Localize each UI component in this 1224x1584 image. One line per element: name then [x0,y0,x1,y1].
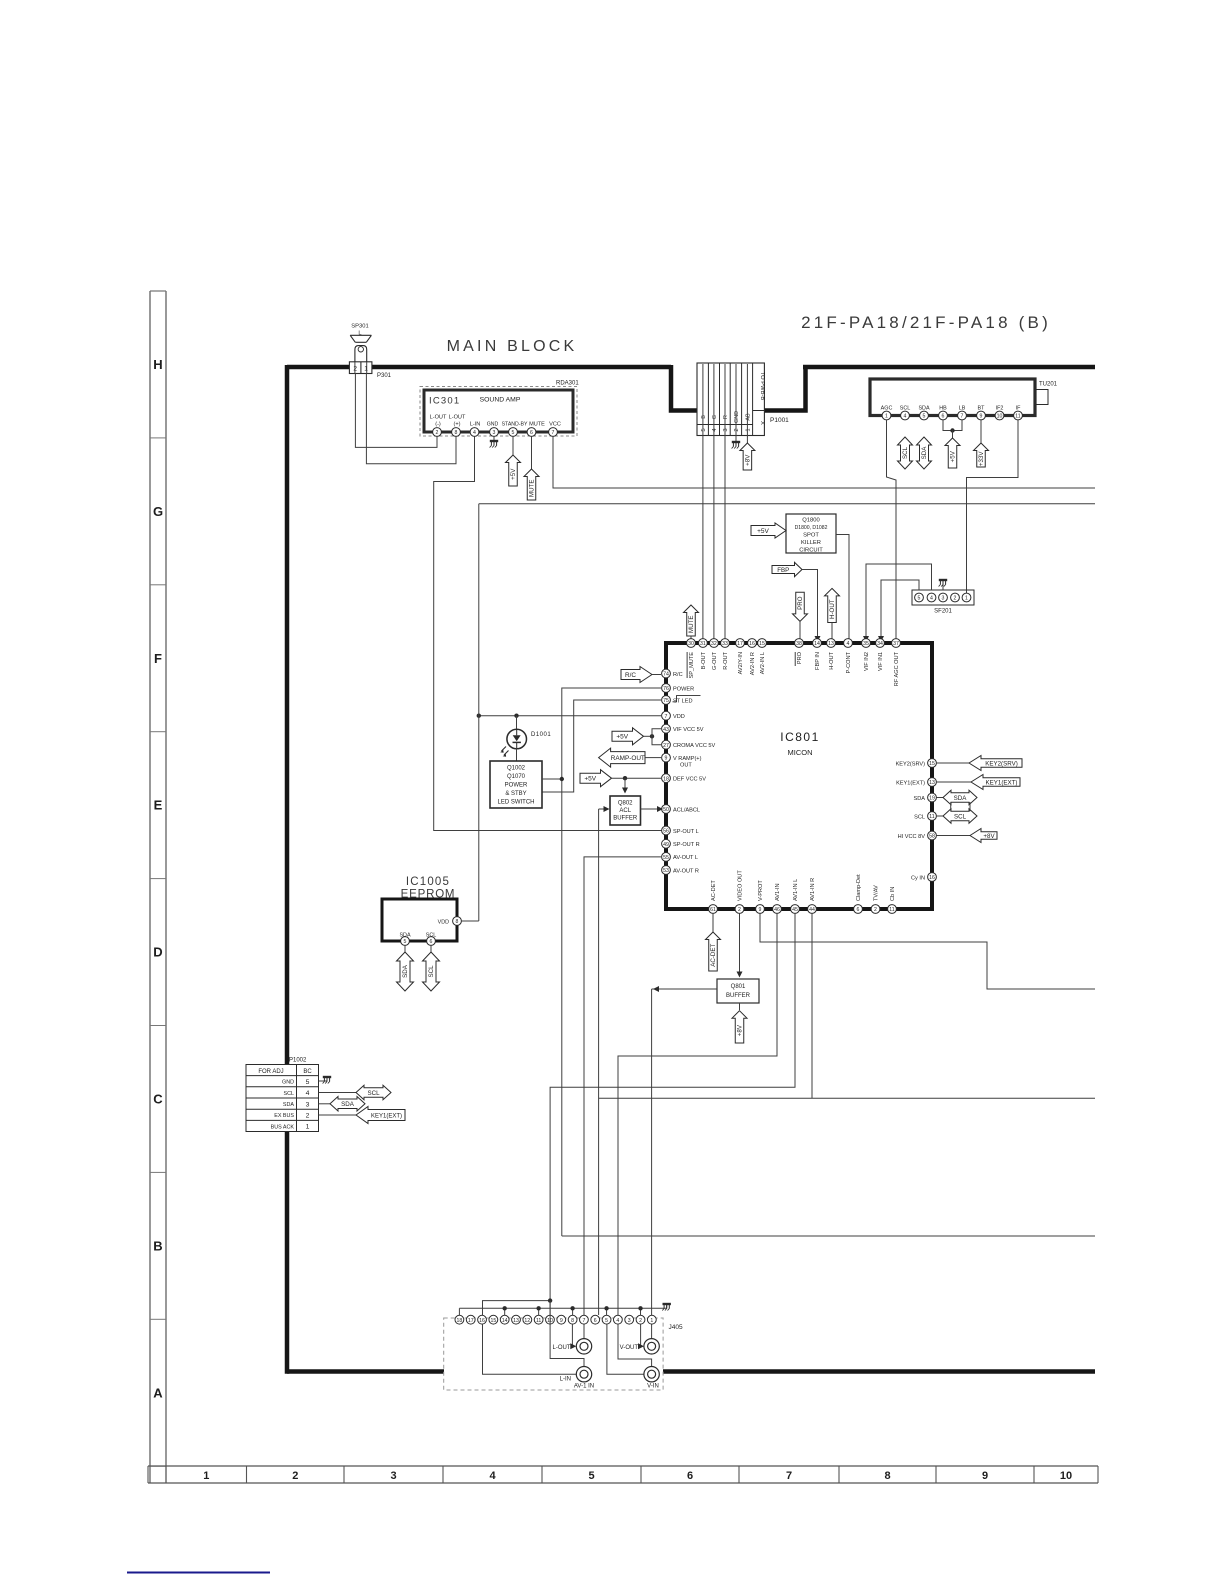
svg-text:SDA: SDA [913,796,925,802]
wire J405 pin5 to V-IN jack left [607,1324,644,1374]
svg-text:58: 58 [929,834,935,840]
wire TU201 IF to SF201 pin1 [967,420,1019,593]
svg-text:Clamp-Det: Clamp-Det [856,874,862,901]
wire J405 ground rail [459,1306,666,1315]
svg-text:SDA: SDA [921,446,928,460]
svg-text:KEY1(EXT): KEY1(EXT) [896,780,925,786]
svg-text:15: 15 [759,641,765,647]
svg-text:B: B [701,415,707,419]
connector P1001 [697,363,789,436]
net KEY1(EXT) arrow [936,775,1020,790]
svg-text:R-OUT: R-OUT [723,651,729,669]
svg-text:9: 9 [982,1470,988,1482]
wire IC801 VDD rail [477,714,661,718]
svg-text:Q802: Q802 [618,801,633,807]
svg-text:+8V: +8V [983,833,995,840]
svg-text:2: 2 [738,907,741,913]
svg-text:V-OUT: V-OUT [620,1345,639,1351]
svg-text:HI VCC 8V: HI VCC 8V [898,834,926,840]
svg-text:VCC: VCC [549,422,561,428]
svg-text:RF AGC OUT: RF AGC OUT [894,651,900,686]
svg-text:SCL: SCL [914,814,925,820]
svg-text:1: 1 [203,1470,209,1482]
svg-text:TV/AV: TV/AV [874,885,880,901]
svg-text:KEY1(EXT): KEY1(EXT) [371,1113,402,1119]
svg-text:4: 4 [930,596,933,602]
connector P1002 FOR ADJ [246,1058,319,1132]
svg-text:LB: LB [959,406,966,412]
svg-text:+5V: +5V [616,734,628,741]
svg-text:3: 3 [942,596,945,602]
wire main bus bottom-right horizontal [663,1369,1095,1374]
svg-text:3: 3 [390,1470,396,1482]
svg-text:IF: IF [1016,406,1021,412]
svg-text:12: 12 [524,1318,530,1324]
svg-text:3: 3 [628,1318,631,1324]
wire node VOUT vertical to V-OUT jack [651,989,653,1339]
wire J405 pin4 to V-IN jack top [618,1324,652,1366]
svg-text:4: 4 [473,430,476,436]
wire V-PROT route [760,913,1095,989]
svg-text:6: 6 [530,430,533,436]
svg-text:AV-OUT L: AV-OUT L [673,855,698,861]
power +5V arrow at TU201 HB/LB [945,438,960,468]
svg-text:H-OUT: H-OUT [829,651,835,669]
svg-text:(+): (+) [454,422,461,428]
wire node ACL branch to J405 pin16 [483,1298,553,1315]
svg-text:1: 1 [885,414,888,420]
svg-text:AV2-IN R: AV2-IN R [750,652,756,675]
wire SP301 through P301 [355,362,367,374]
svg-text:AV-1 IN: AV-1 IN [574,1384,594,1390]
svg-text:4: 4 [306,1090,310,1097]
svg-text:2: 2 [639,1318,642,1324]
wire P1001-3 R to IC801 [724,364,726,639]
svg-text:7: 7 [665,714,668,720]
svg-text:9: 9 [560,1318,563,1324]
svg-text:VIF IN2: VIF IN2 [864,652,870,671]
svg-text:BUS ACK: BUS ACK [271,1124,295,1130]
svg-text:SDA: SDA [283,1102,294,1108]
power +33V arrow at TU201 BT [974,420,989,467]
svg-text:ACL/ABCL: ACL/ABCL [673,807,700,813]
svg-text:27: 27 [663,743,669,749]
svg-text:MUTE: MUTE [529,479,536,497]
svg-text:A: A [153,1385,163,1400]
net RAMP-OUT arrow [599,748,661,767]
svg-text:Cb IN: Cb IN [890,887,896,901]
svg-text:AV1-IN R: AV1-IN R [810,878,816,901]
svg-text:6: 6 [942,414,945,420]
svg-text:GND: GND [734,411,740,423]
tuner TU201 [870,379,1058,420]
svg-text:B: B [153,1238,162,1253]
border row-label column [150,291,166,1483]
svg-text:46: 46 [774,907,780,913]
svg-text:35: 35 [863,641,869,647]
svg-text:5: 5 [918,596,921,602]
svg-text:5: 5 [605,1318,608,1324]
jack L-OUT [553,1339,592,1354]
svg-text:LED SWITCH: LED SWITCH [497,800,534,806]
svg-text:16: 16 [929,875,935,881]
svg-text:SCL: SCL [954,813,967,820]
power +5V arrow at DEF VCC [580,770,661,787]
svg-text:& STBY: & STBY [505,791,526,797]
svg-text:+5V: +5V [757,528,769,535]
svg-text:L-OUT: L-OUT [449,415,466,421]
svg-text:34: 34 [877,641,883,647]
svg-text:AGC: AGC [881,406,893,412]
svg-text:SP-OUT L: SP-OUT L [673,829,699,835]
blue footer line [127,1572,270,1574]
svg-text:SF201: SF201 [934,609,952,615]
svg-text:2: 2 [734,428,740,431]
svg-text:OUT: OUT [680,763,692,769]
svg-text:EEPROM: EEPROM [401,889,456,901]
wire IC1005 VDD to rail [462,920,479,922]
svg-text:4: 4 [847,641,850,647]
svg-text:+33V: +33V [978,451,985,466]
wire SF201 pin5 to IC801 VIF-IN1 [878,580,919,642]
svg-text:TU201: TU201 [1039,382,1058,388]
wire DEF-VCC branch to Q802 [622,778,628,793]
svg-text:SCL: SCL [902,446,909,459]
svg-text:2: 2 [292,1470,298,1482]
svg-text:E: E [154,798,163,813]
svg-text:AB: AB [745,413,751,421]
svg-text:AV-OUT R: AV-OUT R [673,868,699,874]
wire AV-OUT L to L-OUT jack [584,857,661,1339]
wire node ACL down to L-IN jack [550,1301,584,1367]
wire main bus bottom-left horizontal [287,1369,444,1374]
svg-text:11: 11 [1015,414,1020,420]
wire P301-2 to IC301 pin2 [355,374,437,448]
memory IC1005 EEPROM [382,876,461,945]
svg-text:VDD: VDD [438,920,449,926]
svg-text:+8V: +8V [745,454,752,466]
svg-text:P1002: P1002 [289,1058,307,1064]
wire P1001-4 G to IC801 [713,364,715,639]
ground J405 rail end [662,1304,671,1311]
svg-text:13: 13 [929,780,935,786]
wire node ACL vertical to J405 pin6 [598,809,600,1315]
power +8V arrow at P1001 pin1 [740,364,755,470]
wire main bus P1001 left notch [671,365,697,411]
wire node ACL branch to page right [599,1097,1095,1099]
svg-text:MICON: MICON [788,748,813,757]
svg-text:H-OUT: H-OUT [829,599,836,619]
svg-text:19: 19 [929,796,935,802]
svg-text:16: 16 [479,1318,485,1324]
svg-text:1: 1 [965,596,968,602]
svg-text:7: 7 [786,1470,792,1482]
svg-text:V RAMP(+): V RAMP(+) [673,756,702,762]
svg-text:74: 74 [663,672,669,678]
wire J405 pin2 to V-OUT jack [638,1324,644,1349]
svg-text:1: 1 [650,1318,653,1324]
connector SF201 [912,590,974,615]
svg-text:55: 55 [663,855,669,861]
svg-text:IC1005: IC1005 [406,876,450,888]
svg-text:37: 37 [893,641,899,647]
wire main bus top horizontal (P301 to P1001) [372,365,671,370]
svg-text:7: 7 [582,1318,585,1324]
svg-text:IC301: IC301 [429,396,460,407]
svg-text:13: 13 [513,1318,519,1324]
svg-text:F: F [154,651,162,666]
svg-text:7: 7 [961,414,964,420]
svg-text:D1001: D1001 [531,732,551,738]
svg-text:5: 5 [306,1079,310,1086]
connector P301 [349,362,391,379]
jack L-IN [560,1367,592,1383]
svg-text:VDD: VDD [673,714,685,720]
svg-text:15: 15 [929,761,935,767]
svg-text:3: 3 [493,430,496,436]
svg-text:9: 9 [759,907,762,913]
svg-text:2: 2 [874,907,877,913]
svg-text:P301: P301 [377,373,392,379]
svg-text:SDA: SDA [918,406,929,412]
svg-text:KEY2(SRV): KEY2(SRV) [985,760,1018,767]
wire D1001 to Q1002 [516,749,518,762]
net PRO arrow at IC801 [793,592,808,638]
svg-text:43: 43 [663,727,669,733]
svg-text:D1800, D1082: D1800, D1082 [795,525,828,531]
svg-text:J405: J405 [669,1324,683,1331]
svg-text:6: 6 [687,1470,693,1482]
svg-text:G: G [712,415,718,419]
svg-text:18: 18 [457,1318,463,1324]
svg-text:VIF IN1: VIF IN1 [878,652,884,671]
svg-text:BC: BC [303,1069,312,1075]
svg-text:6: 6 [430,939,433,945]
svg-text:5: 5 [923,414,926,420]
svg-text:1: 1 [306,1124,310,1131]
wire VDD to D1001 [516,716,518,729]
svg-text:MUTE: MUTE [688,615,695,633]
wire Q802 input from node ACL [599,806,610,812]
wire Q801 out to node VOUT [652,986,717,992]
svg-text:SDA: SDA [341,1101,355,1108]
svg-text:SCL: SCL [367,1090,380,1097]
transistor Q802 ACL BUFFER [610,796,641,825]
svg-text:4: 4 [904,414,907,420]
svg-text:14: 14 [502,1318,508,1324]
svg-text:KEY1(EXT): KEY1(EXT) [986,779,1018,786]
svg-text:SP301: SP301 [351,324,368,330]
svg-text:17: 17 [737,641,743,647]
svg-text:76: 76 [663,686,669,692]
svg-text:L-OUT: L-OUT [430,415,447,421]
wire VIDEO-OUT to Q801 [737,913,743,977]
svg-text:61: 61 [710,907,716,913]
svg-text:PRO: PRO [797,651,803,664]
svg-text:CIRCUIT: CIRCUIT [799,548,823,554]
wire TU201 HB-LB junction [943,420,962,438]
svg-text:53: 53 [663,868,669,874]
connector J405 dashed outline [444,1318,663,1390]
svg-text:33: 33 [722,641,728,647]
svg-text:1: 1 [745,428,751,431]
svg-text:P-CONT: P-CONT [846,651,852,673]
svg-text:DEF VCC 5V: DEF VCC 5V [673,777,706,783]
svg-text:ACL: ACL [619,808,631,814]
svg-text:FBP: FBP [777,567,789,574]
svg-text:GND: GND [487,422,499,428]
svg-text:ST LED: ST LED [673,698,692,704]
svg-text:Q1800: Q1800 [802,518,819,524]
net SCL double arrow below TU201 [898,437,913,469]
net KEY2(SRV) arrow [936,756,1022,771]
svg-text:50: 50 [663,807,669,813]
svg-text:Q801: Q801 [731,984,746,990]
svg-text:SP_MUTE: SP_MUTE [689,652,695,679]
net SDA double arrow below TU201 [917,437,932,469]
wire spot killer to IC801 P-CONT [836,535,849,639]
svg-text:V-PROT: V-PROT [758,880,764,901]
net R/C arrow [621,667,661,683]
svg-text:13: 13 [828,641,834,647]
svg-text:TO PWB-B: TO PWB-B [759,372,765,401]
svg-text:L-OUT: L-OUT [553,1345,571,1351]
svg-text:14: 14 [814,641,820,647]
svg-text:+5V: +5V [950,450,957,462]
wire Q802 out to IC801 ACL/ABCL [641,806,664,812]
svg-text:L-IN: L-IN [560,1377,571,1383]
svg-text:R: R [723,415,729,419]
svg-text:11: 11 [889,907,894,913]
svg-text:V-IN: V-IN [647,1384,659,1390]
svg-text:P1001: P1001 [770,417,789,424]
wire IC301 pin4 L-IN to node SP-OUT-L [434,437,666,831]
svg-text:4: 4 [489,1470,496,1482]
svg-text:PRO: PRO [797,596,804,610]
ground IC301 pin3 [490,437,499,448]
wire SF201 pin4 to IC801 VIF-IN2 [863,564,932,642]
svg-text:44: 44 [809,907,815,913]
svg-text:B-OUT: B-OUT [701,651,707,669]
net SCL double arrow at IC801 [936,809,977,824]
wire J405 pin8 to L-OUT jack [570,1324,576,1349]
svg-text:MUTE: MUTE [529,422,545,428]
net SDA double arrow at IC1005 [397,945,414,991]
wire AV1-IN route to J405 pin4 [618,913,777,1315]
svg-text:15: 15 [490,1318,496,1324]
svg-text:5: 5 [588,1470,594,1482]
svg-text:Q1070: Q1070 [507,774,526,780]
svg-text:6: 6 [857,907,860,913]
op-amp IC301 SOUND AMP [420,381,579,437]
svg-text:11: 11 [536,1318,541,1324]
svg-text:3: 3 [723,428,729,431]
svg-text:17: 17 [468,1318,474,1324]
IC801 left pin column [662,669,716,874]
svg-text:+5V: +5V [510,468,517,480]
speaker SP301 [350,324,371,363]
net MUTE arrow at IC801 SP-MUTE [684,605,699,639]
power +5V arrow at IC301 pin5 [506,437,521,486]
svg-text:8: 8 [456,919,459,925]
svg-text:KILLER: KILLER [801,540,821,546]
svg-text:SOUND AMP: SOUND AMP [480,397,521,404]
svg-text:32: 32 [711,641,717,647]
svg-text:HB: HB [939,406,947,412]
svg-text:2: 2 [954,596,957,602]
wire AV1-IN R route [811,913,813,1098]
svg-text:VIF VCC 5V: VIF VCC 5V [673,727,704,733]
svg-text:G: G [153,504,163,519]
svg-text:KEY2(SRV): KEY2(SRV) [896,761,926,767]
svg-text:2: 2 [436,430,439,436]
svg-text:8: 8 [571,1318,574,1324]
wire main bus P1001 right notch [764,365,805,411]
wire IC801 POWER to node P [562,688,661,1236]
svg-text:21F-PA18/21F-PA18 (B): 21F-PA18/21F-PA18 (B) [801,313,1051,332]
wire SDA-SCL link [951,802,970,811]
svg-text:7: 7 [552,430,555,436]
svg-text:L-IN: L-IN [470,422,481,428]
jack V-IN [644,1367,659,1390]
svg-text:8: 8 [455,430,458,436]
svg-text:FBP IN: FBP IN [815,652,821,670]
transistor Q1002/Q1070 POWER & STBY LED SWITCH [490,761,542,808]
power +5V arrow at VIF/CROMA VCC [612,728,654,745]
spot killer circuit Q1800 D1800 D1082 [786,514,836,554]
svg-text:AV1-IN L: AV1-IN L [793,879,799,901]
svg-text:CROMA VCC 5V: CROMA VCC 5V [673,743,716,749]
svg-text:EX BUS: EX BUS [274,1113,294,1119]
svg-text:SPOT: SPOT [803,533,819,539]
svg-text:11: 11 [929,814,934,820]
svg-text:2: 2 [306,1113,310,1120]
svg-text:SCL: SCL [284,1091,295,1097]
net SCL double arrow at P1002 [319,1085,392,1100]
title MAIN BLOCK [447,338,578,355]
net SDA double arrow at P1002 [319,1097,366,1112]
svg-text:GND: GND [282,1080,294,1086]
svg-text:49: 49 [663,842,669,848]
wire P301-1 to IC301 pin8 [366,374,456,464]
wire TU201 AGC to IC801 RF-AGC-OUT [887,420,897,639]
svg-text:STAND-BY: STAND-BY [502,422,528,428]
wire AV1-IN L route [550,913,795,1315]
svg-text:Q1002: Q1002 [507,766,526,772]
net H-OUT arrow at IC801 [825,588,840,638]
svg-text:5: 5 [404,939,407,945]
svg-text:C: C [153,1091,163,1106]
svg-text:75: 75 [663,698,669,704]
svg-text:38: 38 [796,641,802,647]
svg-text:X: X [759,421,765,425]
net FBP arrow to IC801 FBP-IN [772,562,821,642]
svg-text:FOR ADJ: FOR ADJ [258,1069,283,1075]
border column-number row [148,1466,1098,1483]
wire VIF VCC / CROMA VCC bracket [652,729,661,745]
svg-text:SDA: SDA [402,964,409,978]
LED D1001 [500,729,551,757]
svg-text:D: D [153,945,162,960]
svg-text:H: H [153,357,162,372]
wire node P to page right [562,1235,1095,1237]
svg-text:16: 16 [749,641,755,647]
svg-text:SDA: SDA [954,795,968,802]
wire main bus left vertical upper [285,365,290,1065]
svg-text:MAIN BLOCK: MAIN BLOCK [447,338,578,355]
svg-text:9: 9 [980,414,983,420]
svg-text:31: 31 [700,641,706,647]
